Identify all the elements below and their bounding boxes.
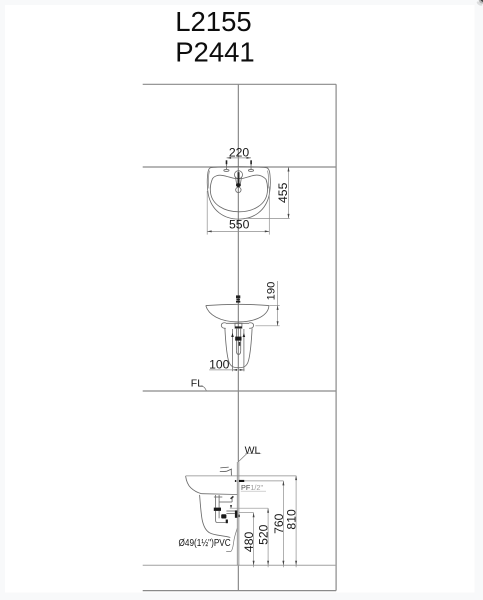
svg-text:480: 480 — [242, 532, 256, 553]
svg-text:FL: FL — [191, 377, 203, 389]
svg-text:455: 455 — [276, 182, 290, 203]
svg-text:P2441: P2441 — [175, 36, 255, 67]
svg-text:190: 190 — [266, 282, 278, 301]
svg-text:220: 220 — [229, 145, 250, 159]
svg-text:520: 520 — [257, 524, 271, 545]
svg-text:WL: WL — [245, 444, 261, 456]
svg-text:Ø49(1½")PVC: Ø49(1½")PVC — [179, 538, 231, 549]
svg-text:810: 810 — [285, 509, 299, 530]
svg-text:L2155: L2155 — [175, 6, 251, 37]
svg-text:550: 550 — [229, 218, 250, 232]
svg-text:PF1/2": PF1/2" — [241, 483, 263, 492]
svg-text:100: 100 — [209, 358, 230, 372]
